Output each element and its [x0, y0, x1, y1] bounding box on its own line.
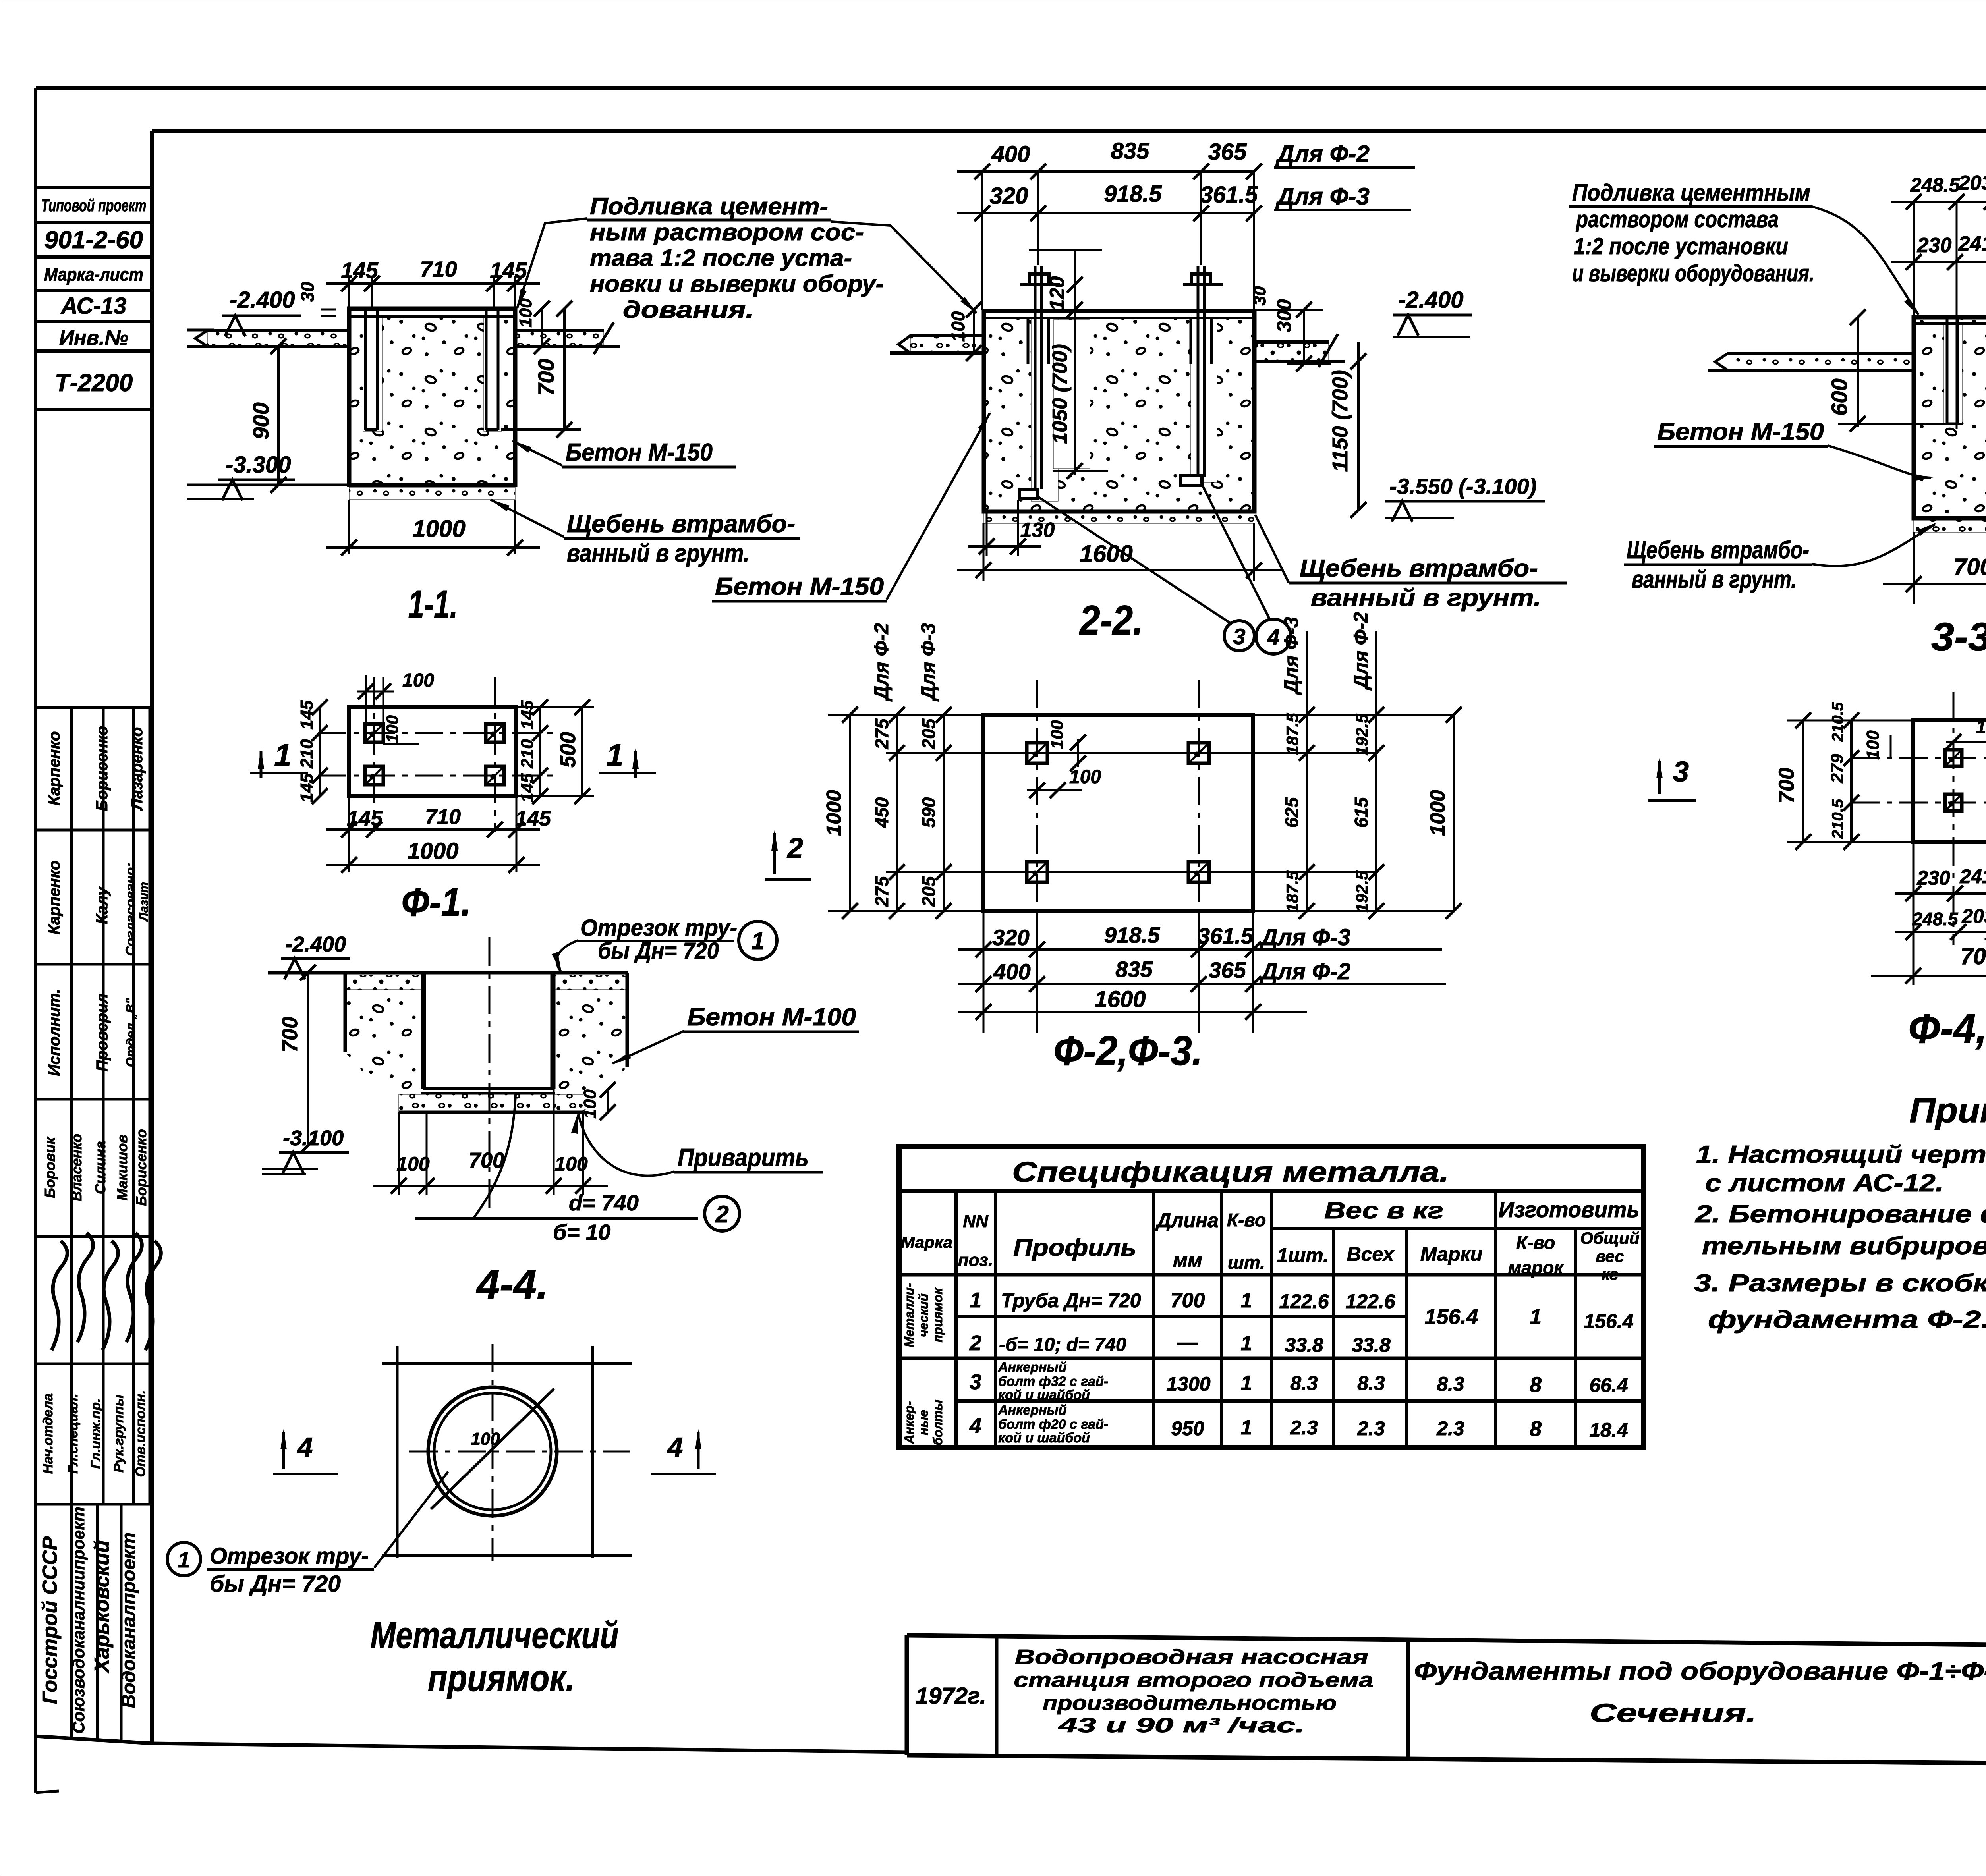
svg-text:145: 145 — [347, 807, 383, 830]
svg-text:450: 450 — [871, 797, 892, 828]
svg-text:205: 205 — [918, 718, 939, 749]
pos circles 3 and 4 — [1037, 484, 1291, 654]
section 3-3 rubble bed — [1914, 518, 1986, 532]
svg-text:кой и шайбой: кой и шайбой — [998, 1388, 1090, 1403]
svg-text:203: 203 — [1958, 172, 1986, 195]
section 4-4 bottom slab — [399, 1089, 583, 1112]
section 1-1 anchor bolt left — [365, 309, 377, 430]
section 2-2 level mark -2.400 right — [1393, 287, 1472, 337]
section 3-3 foundation block — [1914, 317, 1986, 518]
svg-text:ные: ные — [916, 1410, 931, 1435]
section 4-4 pipe centerline — [489, 937, 491, 1215]
metal pit diameter line — [431, 1389, 554, 1509]
plan Ф-2 Ф-3 right dim 192.5 615 192.5 — [1351, 631, 1384, 919]
signature scrawls band 5 — [52, 1233, 161, 1350]
section 2-2 dim 120 rotated — [1029, 250, 1108, 479]
svg-text:ванный в грунт.: ванный в грунт. — [1311, 584, 1541, 612]
svg-text:192.5: 192.5 — [1352, 870, 1371, 913]
svg-text:1: 1 — [178, 1547, 190, 1572]
svg-text:Для Ф-2: Для Ф-2 — [1259, 959, 1350, 984]
plan Ф-2 Ф-3 lower dim row 400 835 365 — [958, 957, 1446, 992]
svg-text:Водопроводная насосная: Водопроводная насосная — [1015, 1646, 1368, 1669]
title column stamp boxes — [36, 188, 152, 410]
svg-text:625: 625 — [1281, 797, 1302, 828]
label Приварить — [571, 1113, 823, 1176]
svg-text:950: 950 — [1171, 1417, 1204, 1440]
svg-text:918.5: 918.5 — [1104, 923, 1160, 948]
svg-text:Для Ф-2: Для Ф-2 — [870, 623, 893, 702]
svg-text:500: 500 — [556, 732, 580, 768]
svg-text:Инв.№: Инв.№ — [59, 326, 128, 349]
svg-text:Для Ф-3: Для Ф-3 — [1259, 924, 1350, 950]
svg-text:Макишов: Макишов — [114, 1135, 130, 1200]
section 2-2 left floor slab — [890, 336, 983, 353]
plan Ф-2 Ф-3 bolt row lines — [828, 715, 1454, 911]
svg-text:К-во: К-во — [1516, 1232, 1555, 1253]
note 2 — [1695, 1200, 1986, 1260]
svg-text:18.4: 18.4 — [1589, 1419, 1628, 1441]
svg-text:Госстрой СССР: Госстрой СССР — [39, 1536, 62, 1704]
plan Ф-1 right dim 500 — [516, 699, 594, 804]
svg-text:шт.: шт. — [1228, 1252, 1265, 1273]
svg-text:130: 130 — [1020, 519, 1055, 542]
svg-text:б= 10: б= 10 — [553, 1220, 610, 1245]
svg-text:100: 100 — [1863, 730, 1883, 760]
svg-text:Борисенко: Борисенко — [133, 1129, 149, 1206]
svg-text:Калу—: Калу— — [93, 870, 111, 924]
svg-text:и выверки оборудования.: и выверки оборудования. — [1572, 261, 1814, 286]
svg-text:Боровик: Боровик — [42, 1137, 58, 1198]
section 3-3 dim row 248.5 203 248.5 — [1891, 172, 1986, 429]
svg-text:30: 30 — [297, 282, 318, 302]
svg-text:кг: кг — [1602, 1266, 1618, 1283]
plan Ф-1 right dim 145 210 145 — [518, 699, 548, 804]
section 3-3 dim row 230 241 229 — [1891, 232, 1986, 270]
svg-text:4: 4 — [297, 1432, 313, 1463]
section 4-4 top surface line — [268, 971, 628, 975]
signature names band 1 — [46, 726, 146, 811]
plan Ф-2 Ф-3 left dim 1000 — [823, 707, 858, 919]
section 3-3 anchor bolt left — [1947, 317, 1957, 424]
svg-text:Для Ф-2: Для Ф-2 — [1350, 612, 1372, 691]
svg-text:марок: марок — [1508, 1257, 1564, 1278]
svg-text:-2.400: -2.400 — [1398, 287, 1463, 313]
svg-text:Отрезок тру-: Отрезок тру- — [580, 915, 737, 941]
section 2-2 dim row 400 835 365 — [957, 138, 1415, 310]
svg-text:156.4: 156.4 — [1424, 1305, 1478, 1329]
svg-text:Подливка цемент-: Подливка цемент- — [590, 193, 828, 220]
svg-text:Вес в кг: Вес в кг — [1324, 1198, 1443, 1224]
svg-text:Для Ф-3: Для Ф-3 — [1280, 617, 1302, 695]
svg-text:1000: 1000 — [407, 838, 458, 864]
svg-text:205: 205 — [918, 876, 939, 907]
svg-text:210.5: 210.5 — [1829, 799, 1847, 839]
svg-text:1: 1 — [606, 737, 623, 772]
svg-text:Силина: Силина — [92, 1141, 108, 1194]
svg-text:Т-2200: Т-2200 — [55, 369, 133, 397]
table header texts — [901, 1197, 1640, 1283]
svg-text:1600: 1600 — [1094, 986, 1146, 1012]
svg-text:120: 120 — [1046, 276, 1069, 311]
svg-text:Металлический: Металлический — [371, 1614, 619, 1656]
svg-text:279: 279 — [1828, 754, 1847, 784]
label Подливка цементным (3-3) — [1569, 180, 1919, 316]
svg-text:66.4: 66.4 — [1589, 1374, 1628, 1396]
svg-text:3-3.: 3-3. — [1931, 615, 1986, 659]
svg-text:210: 210 — [518, 739, 537, 769]
plan Ф-2 Ф-3 lower dim row 320 918.5 361.5 — [958, 911, 1442, 1033]
metal pit section mark 4 right — [651, 1429, 716, 1474]
svg-text:-3.100: -3.100 — [283, 1126, 344, 1150]
section 4-4 dim 700 — [278, 965, 316, 1154]
svg-text:Союзводоканалниипроект: Союзводоканалниипроект — [69, 1507, 88, 1734]
svg-text:145: 145 — [297, 700, 317, 730]
svg-text:203: 203 — [1961, 905, 1986, 927]
section 1-1 rubble bed — [349, 487, 515, 500]
section 1-1 dim 100 rotated — [516, 298, 550, 354]
section 2-2 anchor bolt pos4 — [1180, 266, 1223, 485]
svg-text:8: 8 — [1530, 1417, 1542, 1441]
section 4-4 level mark -3.100 — [262, 1126, 349, 1174]
svg-text:1: 1 — [274, 737, 291, 772]
svg-text:700: 700 — [1953, 554, 1986, 580]
svg-text:210.5: 210.5 — [1829, 702, 1847, 742]
svg-text:Согласовано:: Согласовано: — [123, 863, 138, 956]
svg-text:901-2-60: 901-2-60 — [44, 226, 143, 254]
plan Ф-4 Ф-5 dim row 248.5 203 248.5 — [1895, 905, 1986, 940]
organisation names rotated — [39, 1507, 139, 1734]
section 2-2 dim 1150(700) rotated — [1328, 342, 1366, 518]
svg-text:122.6: 122.6 — [1345, 1290, 1395, 1312]
note 3 — [1694, 1270, 1986, 1334]
svg-text:248.5: 248.5 — [1912, 909, 1959, 929]
svg-text:100: 100 — [402, 670, 434, 691]
svg-text:Длина: Длина — [1155, 1209, 1219, 1231]
svg-text:4: 4 — [667, 1432, 683, 1463]
svg-text:1300: 1300 — [1166, 1373, 1210, 1395]
svg-text:2.3: 2.3 — [1290, 1417, 1318, 1439]
svg-text:болты: болты — [931, 1399, 945, 1445]
label Бетон М-150 (3-3) — [1654, 418, 1934, 481]
svg-text:361.5: 361.5 — [1200, 182, 1258, 208]
svg-text:600: 600 — [1827, 378, 1852, 415]
svg-text:Спецификация металла.: Спецификация металла. — [1012, 1156, 1449, 1188]
plan Ф-1 bolt squares — [365, 724, 504, 785]
svg-text:365: 365 — [1209, 957, 1246, 982]
svg-text:Проверил: Проверил — [93, 993, 111, 1071]
svg-text:Анкерный: Анкерный — [998, 1403, 1067, 1418]
svg-text:ным раствором сос-: ным раствором сос- — [590, 219, 864, 245]
svg-text:230: 230 — [1917, 234, 1952, 257]
svg-text:новки и выверки обору-: новки и выверки обору- — [590, 270, 884, 297]
svg-text:2: 2 — [969, 1331, 981, 1355]
svg-text:2: 2 — [715, 1201, 728, 1228]
svg-text:Марки: Марки — [1420, 1243, 1483, 1265]
section 2-2 dim row 320 918.5 361.5 — [957, 181, 1411, 221]
svg-text:Марка-лист: Марка-лист — [44, 264, 143, 285]
svg-text:Бетон М-150: Бетон М-150 — [1657, 418, 1824, 446]
metal pit grid lines — [382, 1346, 632, 1558]
label Щебень втрамбованный (2-2) — [1255, 515, 1567, 612]
outer frame left foot tick — [36, 1791, 59, 1793]
metal pit centerlines — [409, 1344, 630, 1561]
svg-text:1-1.: 1-1. — [408, 582, 458, 627]
title block project name — [1014, 1646, 1374, 1737]
svg-text:710: 710 — [420, 257, 457, 282]
svg-text:100: 100 — [554, 1153, 588, 1175]
metal pit pipe circles — [428, 1387, 557, 1516]
svg-text:Всех: Всех — [1347, 1243, 1395, 1265]
svg-text:241: 241 — [1959, 865, 1986, 888]
plan Ф-2 Ф-3 lower dim 1600 — [958, 986, 1307, 1020]
svg-text:Ф-1.: Ф-1. — [402, 880, 471, 924]
plan Ф-1 top dim 100 — [357, 670, 434, 744]
table rotated group labels — [902, 1283, 945, 1445]
svg-text:210: 210 — [297, 739, 317, 769]
section 3-3 bottom dim 700 — [1883, 532, 1986, 604]
svg-text:ческий: ческий — [916, 1293, 931, 1337]
svg-text:100: 100 — [396, 1153, 430, 1175]
plan Ф-2 Ф-3 bolt squares — [1027, 743, 1209, 882]
section 3-3 left floor slab — [1708, 354, 1914, 371]
svg-text:3: 3 — [1673, 756, 1689, 788]
svg-text:-2.400: -2.400 — [285, 932, 346, 956]
svg-text:Отв.исполн.: Отв.исполн. — [133, 1390, 148, 1477]
plan Ф-2 Ф-3 right head labels — [1280, 612, 1372, 695]
svg-text:Для Ф-3: Для Ф-3 — [917, 623, 939, 702]
svg-text:241: 241 — [1958, 232, 1986, 255]
svg-text:1: 1 — [1241, 1416, 1252, 1439]
svg-text:Лазаренко: Лазаренко — [128, 727, 146, 811]
svg-text:2-2.: 2-2. — [1079, 597, 1143, 644]
title block frame — [907, 1635, 1986, 1766]
svg-text:248.5: 248.5 — [1910, 174, 1960, 196]
svg-text:700: 700 — [469, 1148, 504, 1172]
svg-text:400: 400 — [993, 959, 1030, 984]
label Бетон М-150 (1-1) — [512, 439, 736, 467]
svg-text:-б= 10; d= 740: -б= 10; d= 740 — [999, 1334, 1126, 1355]
section 4-4 left wall — [345, 973, 423, 1112]
svg-text:4: 4 — [1267, 625, 1279, 650]
svg-text:Для Ф-2: Для Ф-2 — [1275, 141, 1370, 167]
svg-text:365: 365 — [1208, 139, 1247, 165]
table row 2 — [969, 1331, 1391, 1356]
plan Ф-4 Ф-5 left dim 210.5 279 210.5 — [1828, 702, 1859, 850]
svg-text:230: 230 — [1916, 867, 1950, 889]
table row 1 — [970, 1288, 1634, 1332]
label Отрезок трубы with pos circle 1 (pit) — [167, 1472, 448, 1597]
svg-text:Профиль: Профиль — [1013, 1234, 1136, 1261]
svg-text:2: 2 — [786, 832, 803, 864]
svg-text:700: 700 — [1171, 1289, 1205, 1312]
section 1-1 vertical dim 900 — [248, 338, 286, 493]
svg-text:кой и шайбой: кой и шайбой — [998, 1430, 1090, 1446]
svg-text:361.5: 361.5 — [1198, 923, 1254, 948]
svg-text:Общий: Общий — [1580, 1229, 1639, 1247]
svg-text:2. Бетонирование фундаментов: 2. Бетонирование фундаментов вести с обя… — [1695, 1200, 1986, 1228]
svg-text:835: 835 — [1115, 957, 1153, 982]
svg-text:100: 100 — [1069, 766, 1101, 787]
plan Ф-4 Ф-5 outline — [1913, 720, 1986, 842]
section 2-2 dim 100 left rotated — [948, 302, 982, 361]
svg-text:дования.: дования. — [623, 296, 754, 323]
svg-text:с листом АС-12.: с листом АС-12. — [1705, 1170, 1943, 1197]
svg-text:бы Дн= 720: бы Дн= 720 — [210, 1571, 341, 1597]
section 4-4 pit interior pipe walls — [423, 973, 554, 1089]
table row 3 — [970, 1360, 1628, 1403]
svg-text:болт ф32 с гай-: болт ф32 с гай- — [998, 1374, 1108, 1389]
specification table frame — [899, 1146, 1644, 1448]
svg-text:Металли-: Металли- — [902, 1283, 916, 1347]
svg-text:187.5: 187.5 — [1283, 870, 1302, 913]
svg-text:Бетон М-100: Бетон М-100 — [687, 1004, 856, 1031]
svg-text:Щебень втрамбо-: Щебень втрамбо- — [1627, 537, 1809, 564]
svg-text:тава 1:2 после уста-: тава 1:2 после уста- — [590, 245, 852, 271]
plan Ф-2 Ф-3 bolt dim 100 — [1027, 720, 1101, 798]
svg-text:Анкер-: Анкер- — [902, 1401, 916, 1444]
svg-text:-3.300: -3.300 — [226, 452, 291, 478]
section 1-1 level mark -3.300 — [187, 452, 349, 500]
svg-text:710: 710 — [425, 805, 461, 829]
plan Ф-1 section mark 1 right — [599, 737, 656, 778]
svg-text:Примечания :: Примечания : — [1909, 1090, 1986, 1130]
svg-text:Отрезок тру-: Отрезок тру- — [210, 1543, 369, 1569]
svg-text:122.6: 122.6 — [1279, 1290, 1329, 1312]
svg-text:3: 3 — [970, 1370, 981, 1394]
section 1-1 bottom dim 1000 — [326, 500, 540, 556]
svg-text:приямок.: приямок. — [428, 1657, 575, 1699]
plan Ф-1 left dim 145 210 145 — [297, 699, 328, 804]
svg-text:d= 740: d= 740 — [569, 1190, 639, 1215]
svg-text:К-во: К-во — [1227, 1210, 1266, 1230]
svg-text:33.8: 33.8 — [1285, 1334, 1323, 1356]
svg-text:30: 30 — [1250, 286, 1269, 305]
svg-text:8.3: 8.3 — [1437, 1373, 1464, 1395]
section 2-2 anchor bolt pos3 — [1019, 266, 1060, 499]
svg-text:192.5: 192.5 — [1352, 714, 1371, 756]
svg-text:835: 835 — [1111, 138, 1150, 164]
metal pit section mark 4 left — [273, 1429, 338, 1474]
svg-text:700: 700 — [533, 359, 558, 396]
svg-text:Ф-4, Ф-5.: Ф-4, Ф-5. — [1909, 1006, 1986, 1052]
svg-text:156.4: 156.4 — [1584, 1310, 1633, 1332]
plan Ф-2 Ф-3 outline — [983, 715, 1253, 911]
svg-text:1972г.: 1972г. — [916, 1683, 986, 1709]
label Щебень втрамбованный (1-1) — [490, 499, 800, 567]
svg-text:NN: NN — [963, 1212, 989, 1231]
svg-text:Гл.инж.пр.: Гл.инж.пр. — [88, 1399, 103, 1469]
svg-text:1: 1 — [1241, 1332, 1252, 1355]
plan Ф-2 Ф-3 bolt centerlines — [1037, 680, 1199, 985]
plan Ф-4 Ф-5 dim 700 bottom — [1871, 944, 1986, 984]
plan Ф-4 Ф-5 dim row 230 241 229 — [1895, 842, 1986, 985]
svg-text:Карпенко: Карпенко — [46, 861, 63, 935]
svg-text:145: 145 — [515, 807, 551, 830]
svg-text:1: 1 — [1530, 1305, 1542, 1329]
section 2-2 dim 130 — [968, 500, 1055, 556]
svg-text:100: 100 — [383, 715, 402, 743]
svg-text:8.3: 8.3 — [1290, 1372, 1318, 1394]
svg-text:-3.550 (-3.100): -3.550 (-3.100) — [1389, 474, 1536, 499]
plan Ф-2 Ф-3 right dim 1000 — [1426, 707, 1462, 919]
svg-text:100: 100 — [1976, 716, 1986, 737]
svg-text:2.3: 2.3 — [1357, 1417, 1385, 1440]
plan Ф-2 Ф-3 right dim 187.5 625 187.5 — [1281, 631, 1315, 919]
svg-text:2.3: 2.3 — [1436, 1417, 1464, 1440]
signature names band 2 — [46, 861, 151, 956]
svg-text:275: 275 — [871, 718, 892, 749]
svg-text:Изготовить: Изготовить — [1499, 1197, 1640, 1222]
svg-text:700: 700 — [1775, 768, 1799, 803]
section 1-1 right floor slab — [515, 322, 620, 354]
svg-text:Карпенко: Карпенко — [46, 731, 63, 806]
svg-text:Ф-2,Ф-3.: Ф-2,Ф-3. — [1054, 1028, 1203, 1074]
section 3-3 dim 600 — [1827, 309, 1962, 432]
svg-text:43 и 90 м³ /час.: 43 и 90 м³ /час. — [1058, 1714, 1305, 1737]
svg-text:-2.400: -2.400 — [230, 287, 295, 313]
svg-text:Сечения.: Сечения. — [1590, 1698, 1756, 1727]
outer frame top line — [36, 86, 1986, 90]
svg-text:900: 900 — [248, 402, 273, 439]
section 1-1 top dimension 145 710 145 — [326, 257, 540, 309]
metal pit title — [371, 1614, 619, 1699]
svg-text:Щебень втрамбо-: Щебень втрамбо- — [567, 510, 795, 538]
svg-text:145: 145 — [490, 258, 527, 283]
svg-text:275: 275 — [871, 876, 892, 907]
svg-text:Бетон М-150: Бетон М-150 — [715, 573, 884, 600]
svg-text:700: 700 — [278, 1017, 302, 1052]
svg-text:тельным вибрированием.: тельным вибрированием. — [1702, 1232, 1986, 1260]
label Бетон М-150 (2-2) — [712, 411, 991, 601]
svg-text:100: 100 — [471, 1429, 500, 1449]
section 4-4 right wall — [554, 973, 627, 1112]
svg-text:раствором состава: раствором состава — [1575, 207, 1779, 232]
plan Ф-4 Ф-5 section mark 3 left — [1648, 756, 1696, 801]
svg-text:145: 145 — [341, 258, 378, 283]
section 2-2 foundation block — [984, 311, 1254, 511]
signature names band 4 — [42, 1129, 149, 1206]
svg-text:1: 1 — [751, 928, 764, 954]
svg-text:Фундаменты под оборудование Ф-: Фундаменты под оборудование Ф-1÷Ф-5. — [1414, 1657, 1986, 1685]
section 2-2 rubble bed — [983, 510, 1254, 523]
svg-text:Рук.группы: Рук.группы — [111, 1395, 126, 1473]
plan Ф-1 bottom dim 1000 — [326, 838, 540, 873]
label Щебень втрамбованный (3-3) — [1624, 523, 1937, 593]
signature roles band 6 — [41, 1390, 148, 1477]
svg-text:300: 300 — [1273, 299, 1295, 332]
note 1 — [1696, 1141, 1986, 1197]
section 1-1 vertical dim 700 — [501, 301, 581, 438]
svg-text:Типовой проект: Типовой проект — [41, 196, 147, 215]
svg-text:ванный в грунт.: ванный в грунт. — [567, 540, 750, 567]
plan Ф-2 Ф-3 left head labels — [870, 623, 939, 702]
svg-text:Щебень втрамбо-: Щебень втрамбо- — [1300, 555, 1538, 582]
svg-text:АС-13: АС-13 — [60, 293, 127, 319]
section 4-4 level mark -2.400 — [258, 932, 350, 979]
svg-text:поз.: поз. — [958, 1251, 993, 1270]
svg-text:приямок: приямок — [931, 1287, 945, 1343]
svg-text:Приварить: Приварить — [678, 1144, 809, 1172]
svg-text:Гл.специал.: Гл.специал. — [66, 1393, 81, 1473]
inner frame top line — [152, 129, 1986, 133]
svg-text:1000: 1000 — [1426, 790, 1449, 836]
svg-text:3: 3 — [1233, 624, 1245, 649]
svg-text:100: 100 — [948, 311, 968, 342]
svg-text:Водоканалпроект: Водоканалпроект — [118, 1532, 139, 1708]
section 1-1 level mark -2.400 — [187, 287, 301, 336]
section 4-4 dim 100 right rotated — [580, 1082, 616, 1120]
svg-text:1000: 1000 — [823, 790, 846, 836]
